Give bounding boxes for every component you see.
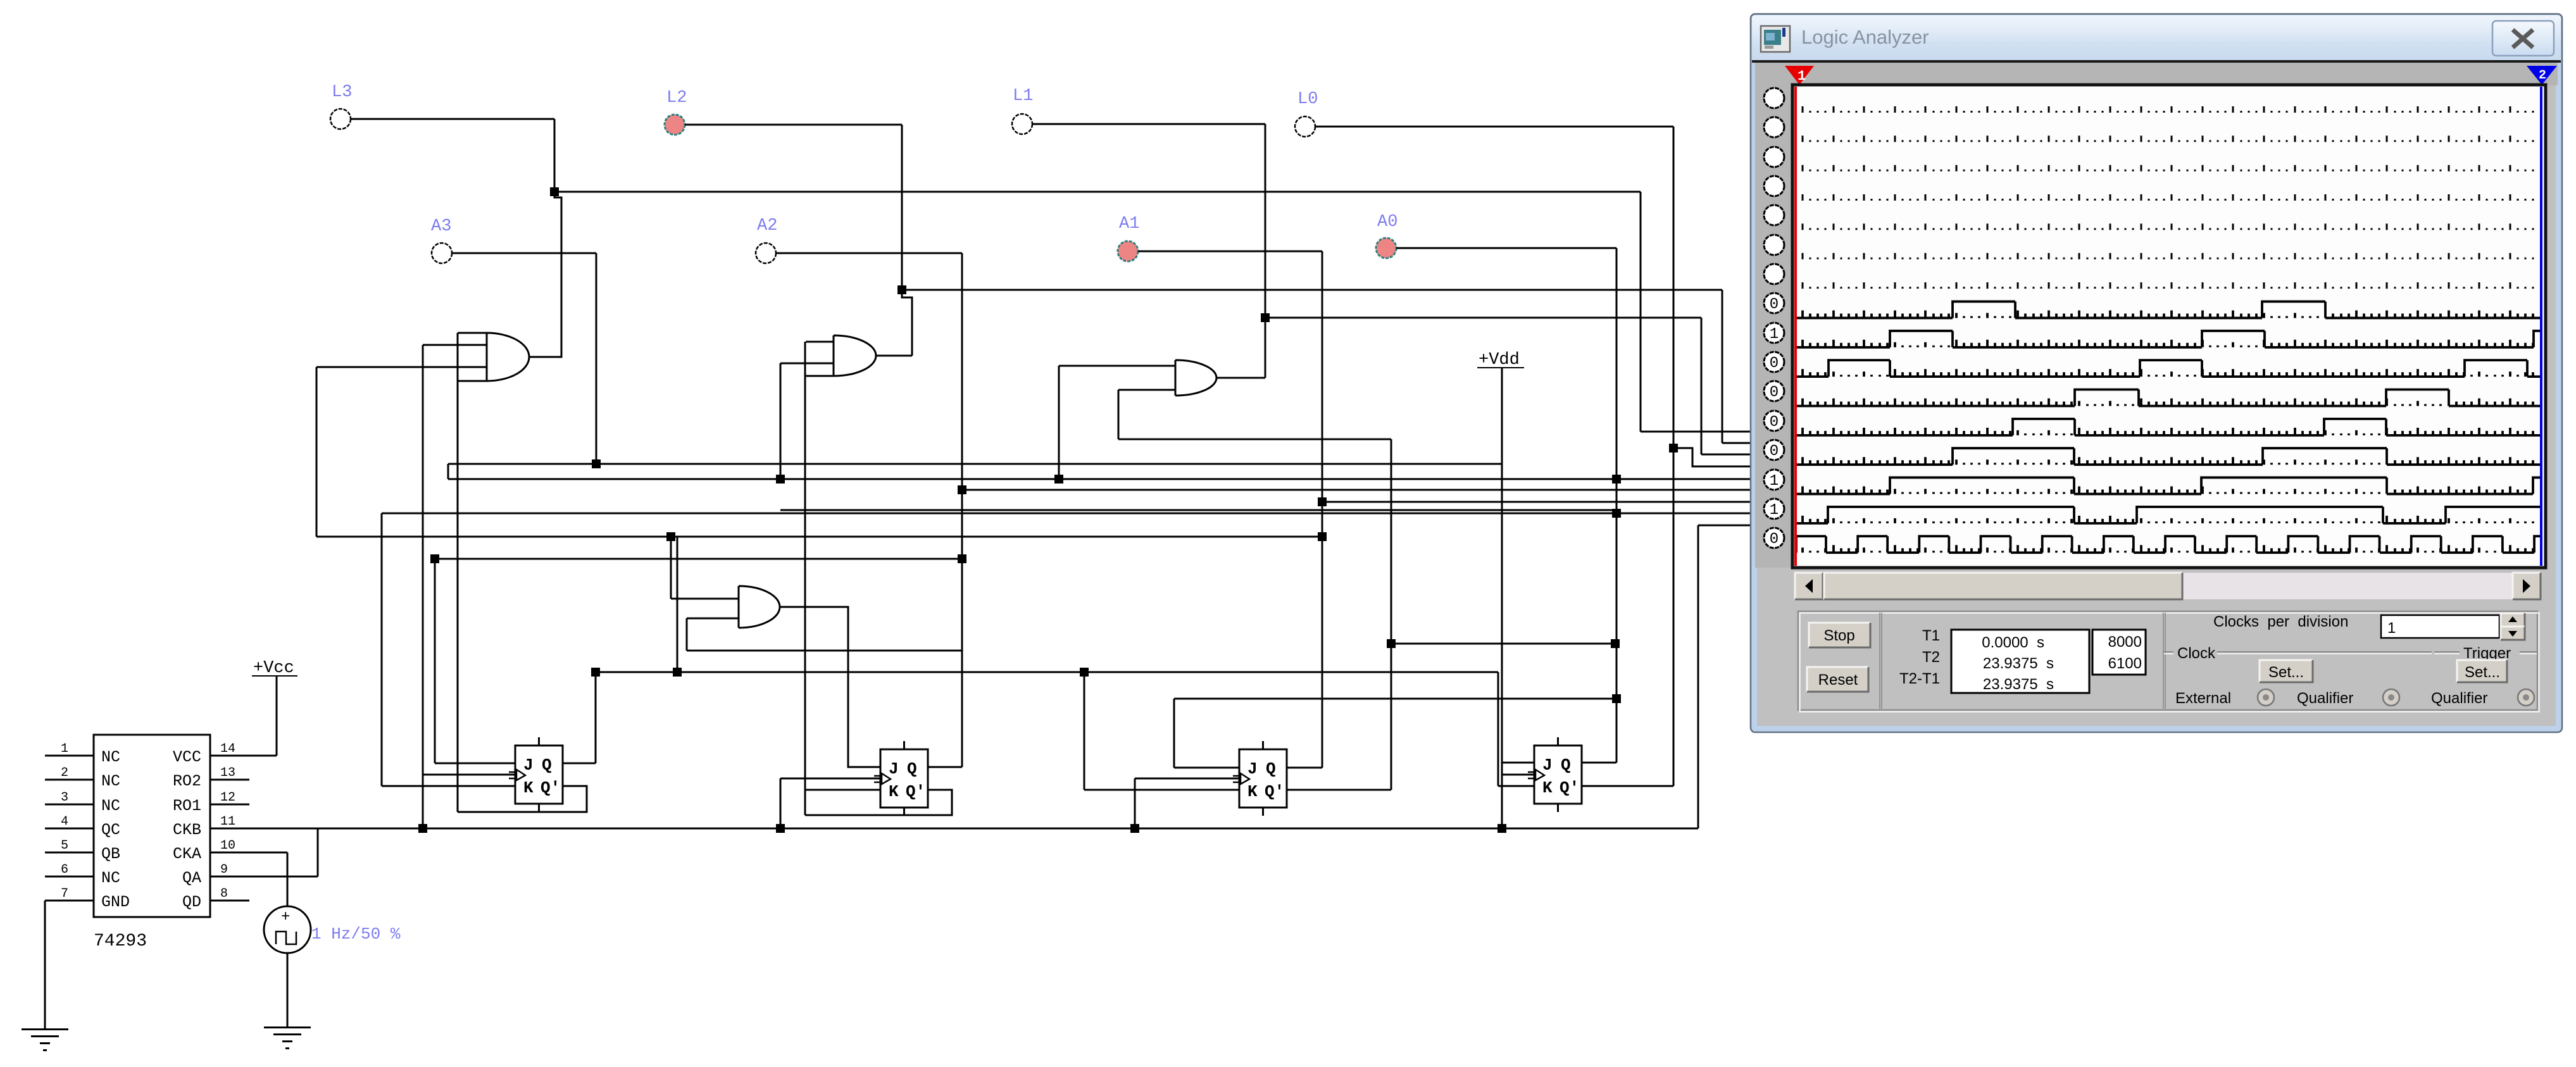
svg-text:K: K [523, 778, 534, 797]
svg-text:Q': Q' [541, 778, 560, 797]
wire L2 down [901, 125, 903, 290]
node L2 (terminal L2) [665, 115, 685, 135]
wire net-L3 horizontal bus [554, 191, 1641, 193]
node A0 (terminal A0) [1376, 238, 1396, 258]
svg-text:RO1: RO1 [173, 797, 201, 815]
svg-text:+Vdd: +Vdd [1479, 351, 1520, 370]
junction L2 bus [897, 285, 906, 294]
wire L3 to bus [351, 118, 554, 120]
svg-text:Q: Q [1266, 759, 1276, 778]
wire net-A1 into analyzer ch14 [1322, 501, 1758, 503]
wire FF1 J input [435, 763, 515, 764]
svg-text:Qualifier: Qualifier [2431, 690, 2487, 707]
svg-text:CKA: CKA [173, 845, 201, 863]
svg-text:1: 1 [1798, 68, 1806, 84]
svg-text:1: 1 [1770, 326, 1779, 343]
svg-text:A3: A3 [431, 217, 451, 236]
junction clock bus FF2 [776, 824, 785, 833]
window close button [2492, 21, 2554, 56]
wire net-A0 riser (FF4 Q) [1616, 248, 1618, 763]
wire bus806 [780, 509, 1616, 511]
junction net-A0 bus1104 [1612, 694, 1621, 703]
JK flip-flop FF3 [1239, 749, 1287, 808]
wire G1 input 3 [316, 366, 487, 368]
svg-text:13: 13 [220, 766, 235, 780]
svg-text:Q: Q [1561, 756, 1571, 775]
svg-text:1: 1 [61, 742, 68, 756]
U1 pin 13 (RO2) [210, 779, 249, 781]
wire bus1104 (FF3 J net) [1174, 698, 1616, 700]
wire FF3 J riser to bus1104 [1173, 699, 1175, 768]
junction net-A1 bus793 [1318, 497, 1327, 506]
analyzer waveform channel 13 [1796, 448, 2542, 465]
svg-text:1: 1 [1770, 502, 1779, 519]
wire A3 to riser [452, 253, 596, 254]
wire L1 down / gate G3 output riser [1265, 124, 1266, 378]
wire G1 input 1 stub [458, 332, 487, 334]
analyzer channel 11 terminal [1764, 381, 1784, 401]
svg-text:GND: GND [101, 893, 130, 911]
svg-text:6100: 6100 [2108, 655, 2142, 672]
wire FF2 Qbar wrap-around [805, 790, 952, 815]
wire FF3 Qbar output to riser [1286, 789, 1391, 791]
U1 pin 8 (QD) [210, 900, 249, 902]
wire A1 to riser [1138, 251, 1322, 253]
wire FF1 K riser to bus811 [381, 513, 383, 786]
svg-text:10: 10 [220, 839, 235, 853]
svg-text:Reset: Reset [1818, 671, 1858, 689]
svg-text:0.0000 s: 0.0000 s [1982, 634, 2044, 651]
svg-text:11: 11 [220, 814, 235, 829]
svg-text:+Vcc: +Vcc [253, 659, 294, 678]
analyzer cursor 1 line [1794, 87, 1797, 566]
svg-text:K: K [1247, 782, 1258, 801]
window icon [1761, 26, 1790, 52]
wire A2 to riser [776, 253, 962, 254]
analyzer cursor marker strip [1755, 63, 2558, 85]
analyzer waveform channel 15 [1796, 507, 2542, 523]
svg-text:1: 1 [1770, 473, 1779, 490]
analyzer waveform channel 9 [1796, 331, 2542, 347]
junction net-A2 bus774 [958, 485, 966, 494]
svg-text:Set...: Set... [2268, 664, 2304, 681]
wire FF1 Q output [563, 763, 596, 764]
wire U1 pin7 GND [44, 901, 46, 1028]
junction clock bus FF3 [1130, 824, 1139, 833]
svg-text:A2: A2 [757, 216, 777, 235]
U1 pin 3 (NC) [45, 804, 94, 806]
wire net-L2 into analyzer ch9 [1722, 442, 1758, 444]
analyzer channel 9 terminal [1764, 323, 1784, 343]
svg-text:6: 6 [61, 863, 68, 877]
wire net-L3 down to analyzer [1640, 192, 1642, 432]
wire G3 input 2 [1118, 389, 1175, 391]
analyzer channel 4 terminal [1764, 176, 1784, 196]
analyzer channel 15 terminal [1764, 499, 1784, 519]
AND gate G1 (A3 stage) [487, 333, 529, 381]
analyzer channel 2 terminal [1764, 117, 1784, 137]
wire G1 input 2 stub [423, 344, 487, 346]
U1 pin 1 (NC) [45, 755, 94, 757]
junction A3 bus [592, 459, 601, 468]
wire net-A2 riser (FF2 Q) [961, 253, 963, 767]
wire G1 input 4 stub [458, 380, 487, 382]
analyzer channel 10 terminal [1764, 352, 1784, 372]
svg-text:Q: Q [907, 759, 917, 778]
junction L1 bus [1261, 313, 1270, 322]
svg-text:+: + [281, 909, 290, 926]
svg-text:A0: A0 [1377, 213, 1397, 232]
svg-text:T2: T2 [1922, 649, 1940, 666]
junction bus757 gate G2 riser [776, 475, 785, 484]
analyzer cursor 2 line [2540, 87, 2542, 566]
analyzer channel 5 terminal [1764, 205, 1784, 225]
junction bus1017 net-A0 [1611, 639, 1620, 648]
analyzer channel 8 terminal [1764, 293, 1784, 313]
svg-text:5: 5 [61, 839, 68, 853]
wire net-L2 down to analyzer [1722, 290, 1723, 443]
wire G4 input 1 [671, 598, 739, 600]
wire net-L0 into analyzer ch11 [1673, 448, 1758, 466]
U1 pin 2 (NC) [45, 779, 94, 781]
svg-text:0: 0 [1770, 531, 1779, 548]
button Reset [1807, 667, 1868, 692]
svg-text:K: K [889, 782, 899, 801]
wire FF4 Q output [1582, 762, 1616, 764]
svg-text:CKB: CKB [173, 821, 201, 839]
clocks spinbox [2381, 615, 2499, 638]
wire +Vcc to U1 pin14 [276, 676, 278, 756]
wire net-A2 into analyzer ch13 [962, 489, 1758, 491]
wire L3 down [554, 119, 556, 194]
groupbox Clock [2164, 651, 2432, 652]
svg-text:L3: L3 [332, 83, 352, 102]
wire FF4 K input [1498, 785, 1534, 787]
analyzer plot area [1792, 85, 2546, 568]
svg-text:VCC: VCC [173, 748, 201, 766]
analyzer waveform channel 14 [1796, 478, 2542, 494]
wire G4 input 2 [687, 618, 739, 620]
wire L2 to riser [685, 124, 902, 126]
junction clock bus FF4 [1497, 824, 1506, 833]
wire bus757 into analyzer ch12 [448, 478, 1758, 480]
wire A3 down [596, 253, 597, 464]
svg-text:0: 0 [1770, 443, 1779, 460]
svg-text:4: 4 [61, 814, 68, 829]
AND gate G3 (A1 stage) [1175, 360, 1216, 396]
ground (clock source) [264, 1026, 311, 1028]
wire jog bus733-bus757 [447, 464, 449, 479]
JK flip-flop FF4 [1534, 746, 1582, 804]
svg-text:Logic Analyzer: Logic Analyzer [1801, 26, 1929, 48]
node A2 (terminal A2) [756, 243, 776, 263]
node L1 (terminal L1) [1012, 114, 1032, 134]
wire bus811 (FF1 K net) into analyzer ch15 [382, 513, 1758, 515]
instrument window: Logic Analyzer [1751, 14, 2562, 732]
wire G3 input 2 riser to bus694 [1118, 390, 1120, 439]
wire bus1062 (FF1 Q net) [596, 671, 1498, 673]
svg-text:3: 3 [61, 790, 68, 805]
analyzer channel 13 terminal [1764, 440, 1784, 460]
wire clock net into analyzer ch16 [1698, 525, 1758, 527]
AND gate G4 (middle stage) [739, 586, 780, 628]
svg-text:1: 1 [2387, 620, 2396, 637]
radio button Clock Qualifier [2383, 689, 2399, 706]
U1 pin 7 (GND) [45, 900, 94, 902]
wire clock bus [210, 828, 1698, 830]
svg-text:7: 7 [61, 887, 68, 901]
wire U1 pin9 QA riser to clock bus [317, 828, 319, 877]
wire FF1 Q riser to bus1062 [595, 672, 597, 763]
button Clock Set [2260, 660, 2313, 682]
wire net-L3 into analyzer ch8 [1641, 431, 1758, 433]
U1 pin 4 (QC) [45, 828, 94, 830]
svg-text:J: J [1247, 759, 1258, 778]
svg-text:0: 0 [1770, 414, 1779, 431]
junction net-A0 bus811 [1612, 509, 1621, 518]
svg-text:QD: QD [182, 893, 201, 911]
wire bus883 [435, 558, 962, 560]
analyzer channel 3 terminal [1764, 147, 1784, 167]
wire clock bottom to ground [287, 953, 289, 1026]
analyzer channel 14 terminal [1764, 470, 1784, 490]
wire FF3 clock input [1135, 778, 1239, 780]
wire bus1028 [687, 650, 961, 652]
svg-text:0: 0 [1770, 296, 1779, 313]
wire L0 to riser [1315, 126, 1673, 128]
svg-text:L1: L1 [1013, 87, 1033, 106]
cursor 1 marker (red) [1785, 66, 1814, 85]
node A3 (terminal A3) [432, 243, 452, 263]
junction FF1 Q riser [591, 668, 600, 677]
svg-text:0: 0 [1770, 384, 1779, 401]
wire G4 input 1 riser to bus848 [670, 537, 672, 599]
svg-text:9: 9 [220, 863, 228, 877]
wire link bus848-bus1062 [677, 537, 678, 672]
svg-text:1 Hz/50 %: 1 Hz/50 % [311, 925, 401, 944]
svg-text:Q: Q [542, 756, 552, 775]
analyzer waveform channel 8 [1796, 301, 2542, 318]
analyzer waveform channel 10 [1796, 360, 2542, 377]
analyzer channel 12 terminal [1764, 411, 1784, 431]
junction net-A2 bus883 [958, 554, 966, 563]
analyzer empty channel grid rows [1803, 106, 2533, 289]
wire L1 to riser [1032, 123, 1265, 125]
wire G3 input 1 [1059, 365, 1175, 367]
wire clock riser right [1698, 525, 1699, 828]
junction net-A0 bus757 [1612, 475, 1621, 484]
wire net-A1 riser (FF3 Q) [1322, 251, 1323, 768]
analyzer channel 16 terminal [1764, 528, 1784, 548]
svg-text:QB: QB [101, 845, 120, 863]
wire G2 output stub [876, 355, 912, 357]
svg-text:Set...: Set... [2465, 664, 2500, 681]
radio button External [2258, 689, 2274, 706]
wire G2 input 2 stub [780, 363, 834, 365]
wire G2 input 1 stub [806, 341, 834, 343]
U1 pin 10 (CKA) [210, 852, 287, 854]
analyzer channel 1 terminal [1764, 88, 1784, 108]
analyzer channel terminal strip [1755, 85, 1792, 568]
svg-text:J: J [523, 756, 534, 775]
svg-text:NC: NC [101, 797, 120, 815]
svg-text:NC: NC [101, 748, 120, 766]
U1 pin 9 (QA) [210, 876, 318, 878]
U1 pin 6 (NC) [45, 876, 94, 878]
cursor 2 marker (blue) [2527, 66, 2557, 85]
junction L3 bus [550, 187, 559, 196]
scrollbar thumb [1824, 573, 2182, 599]
wire FF1 clock input [423, 774, 515, 776]
U1 pin 14 (VCC) [210, 755, 277, 757]
wire gate G3 output [1216, 377, 1265, 379]
wire FF4 clock input [1502, 774, 1534, 776]
window title bar [1752, 15, 2561, 60]
svg-text:QC: QC [101, 821, 120, 839]
wire net-L2 horizontal bus [902, 289, 1722, 291]
wire G1 input riser (FF1 Qbar net) [457, 333, 459, 812]
node L3 (terminal L3) [330, 109, 351, 129]
ground (U1 pin 7) [22, 1028, 68, 1030]
svg-text:2: 2 [61, 766, 68, 780]
node A1 (terminal A1) [1118, 241, 1138, 261]
wire FF1 J riser to bus883 [434, 559, 436, 763]
svg-text:Clock: Clock [2177, 645, 2216, 662]
wire bus848 [316, 536, 1322, 538]
wire G2 input 3 stub [806, 375, 834, 377]
svg-text:NC: NC [101, 869, 120, 887]
JK flip-flop FF2 [880, 749, 928, 808]
wire clock top to U1 CKA [287, 852, 289, 906]
junction bus757 gate G3 riser [1054, 475, 1063, 484]
wire net-L1 down to analyzer [1701, 318, 1703, 454]
svg-text:RO2: RO2 [173, 772, 201, 790]
wire FF4 K riser from bus1062 [1497, 672, 1499, 786]
svg-text:2: 2 [2539, 68, 2546, 83]
wire G2 input 2 riser to bus757 [780, 363, 782, 479]
wire net-L0 long riser to FF4 [1673, 127, 1675, 786]
wire FF1 Qbar wrap-around [458, 786, 587, 812]
wire bus1017 [1391, 643, 1615, 645]
junction net-A1 bus848 [1318, 532, 1327, 541]
wire G3 input 1 riser to bus757 [1058, 366, 1060, 479]
svg-text:External: External [2175, 690, 2231, 707]
IC U1 74293 counter [94, 735, 210, 917]
svg-text:Q': Q' [1560, 778, 1579, 797]
wire +Vdd riser (FF4 J/clock column) [1501, 368, 1503, 828]
svg-text:12: 12 [220, 790, 235, 805]
wire FF2 clock input [780, 778, 880, 780]
analyzer channel 6 terminal [1764, 235, 1784, 255]
wire G1 output to L3 junction [529, 194, 561, 357]
wire net-L1 into analyzer ch10 [1701, 454, 1758, 456]
svg-text:Q': Q' [1265, 782, 1284, 801]
junction bus1062 v1070 [673, 668, 682, 677]
wire FF1 K input [382, 785, 515, 787]
wire bus694 (gate G3 input 2 net) [1118, 439, 1391, 440]
junction bus848 gate G4 riser [666, 532, 675, 541]
wire net-L1 horizontal bus [1265, 317, 1701, 319]
wire FF4 Qbar to net-L0 riser [1582, 785, 1673, 787]
svg-text:L0: L0 [1297, 90, 1318, 109]
wire G4 output to FF2 J [780, 607, 880, 767]
analyzer waveform channel 16 [1796, 536, 2542, 552]
svg-text:A1: A1 [1119, 215, 1139, 234]
wire FF2 clock riser [780, 778, 782, 828]
wire FF3 K riser to bus1062 [1084, 672, 1085, 790]
wire FF3 K input [1084, 789, 1239, 791]
svg-text:0: 0 [1770, 355, 1779, 372]
svg-text:T1: T1 [1922, 627, 1940, 644]
svg-text:Qualifier: Qualifier [2297, 690, 2353, 707]
analyzer scrollbar [1795, 573, 2541, 599]
analyzer control panel [1795, 609, 2541, 713]
radio button Trigger Qualifier [2518, 689, 2534, 706]
svg-text:QA: QA [182, 869, 201, 887]
wire net-A3 horizontal bus [448, 463, 1502, 465]
svg-text:23.9375 s: 23.9375 s [1983, 676, 2054, 693]
analyzer waveform channel 12 [1796, 419, 2542, 435]
junction bus883 FF1-J riser [430, 554, 439, 563]
wire FF1 clock riser / G1 input riser [422, 345, 424, 828]
wire A0 to riser [1396, 247, 1616, 249]
svg-text:J: J [1542, 756, 1553, 775]
wire G4 input 2 riser to bus1028 [686, 618, 688, 651]
JK flip-flop FF1 [515, 746, 563, 804]
junction clock bus FF1 [418, 824, 427, 833]
analyzer channel 7 terminal [1764, 264, 1784, 284]
node L0 (terminal L0) [1295, 116, 1315, 137]
U1 pin 5 (QB) [45, 852, 94, 854]
junction bus1062 FF3-K riser [1080, 668, 1089, 677]
wire gate G2 output to junction [902, 290, 912, 356]
wire G1 input 3 riser to bus848 [316, 367, 318, 537]
U1 pin 12 (RO1) [210, 804, 249, 806]
wire FF3 Q output [1286, 767, 1322, 769]
analyzer waveform channel 11 [1796, 390, 2542, 406]
svg-text:Q': Q' [906, 782, 925, 801]
wire FF4 J input [1502, 762, 1534, 764]
svg-text:Clocks per division: Clocks per division [2213, 613, 2348, 630]
junction bus1017 [1387, 639, 1396, 648]
junction net-L0 tap [1669, 444, 1678, 452]
svg-text:8000: 8000 [2108, 633, 2142, 651]
groupbox Trigger [2434, 651, 2537, 652]
svg-text:23.9375 s: 23.9375 s [1983, 655, 2054, 672]
svg-text:14: 14 [220, 742, 235, 756]
clock source V1 1Hz/50% [264, 906, 311, 953]
svg-text:K: K [1542, 778, 1553, 797]
wire FF2 K / G2 input riser [804, 342, 806, 815]
U1 pin 11 (CKB) [210, 828, 211, 830]
button Stop [1809, 623, 1870, 647]
svg-text:Stop: Stop [1823, 627, 1854, 644]
svg-text:NC: NC [101, 772, 120, 790]
svg-text:74293: 74293 [94, 932, 147, 951]
wire riser FF3 Qbar net [1391, 439, 1392, 790]
sample count box 8000/6100 [2092, 630, 2146, 675]
svg-text:T2-T1: T2-T1 [1899, 670, 1940, 687]
wire FF3 clock riser [1134, 778, 1136, 828]
wire FF2 K input [805, 789, 880, 791]
T1/T2 readout box [1951, 630, 2089, 693]
wire FF3 J input [1174, 767, 1239, 769]
svg-text:L2: L2 [666, 89, 687, 108]
button Trigger Set [2457, 660, 2507, 682]
svg-text:J: J [889, 759, 899, 778]
wire FF2 Q output [927, 766, 962, 768]
svg-text:8: 8 [220, 887, 228, 901]
